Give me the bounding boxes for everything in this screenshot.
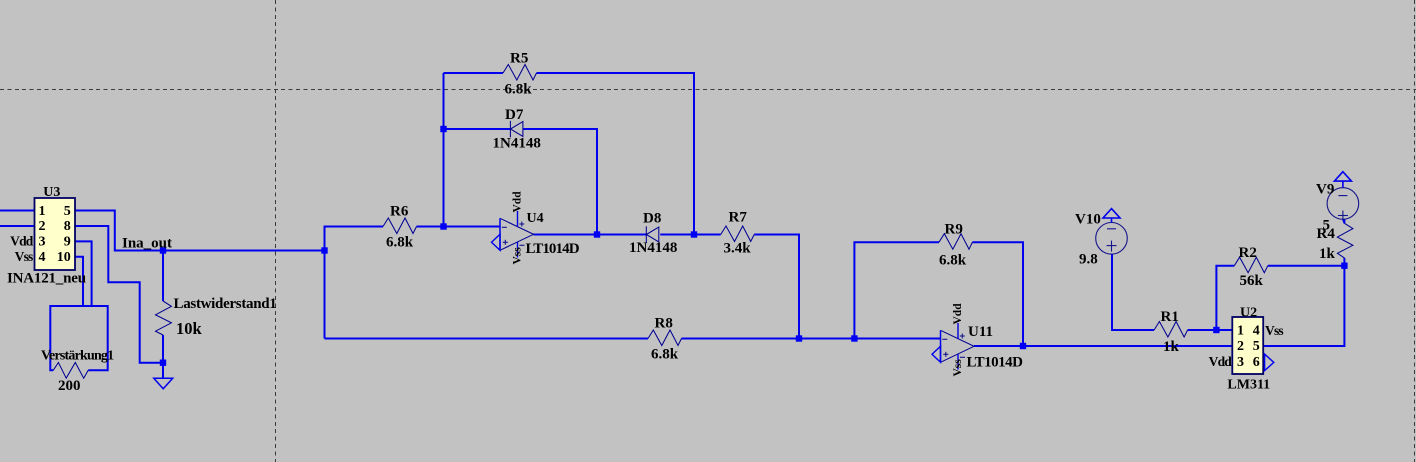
resistor R6 xyxy=(383,218,417,234)
svg-text:Vss: Vss xyxy=(15,249,33,264)
resistor R9 xyxy=(939,234,972,250)
svg-text:V9: V9 xyxy=(1316,182,1334,198)
svg-text:R4: R4 xyxy=(1317,226,1336,242)
svg-text:6.8k: 6.8k xyxy=(651,347,679,363)
svg-text:V10: V10 xyxy=(1075,212,1101,228)
svg-text:Lastwiderstand1: Lastwiderstand1 xyxy=(174,296,277,312)
voltage source V9 xyxy=(1327,172,1359,224)
op-amp U11 xyxy=(932,323,974,370)
svg-text:LM311: LM311 xyxy=(1227,378,1270,393)
svg-text:R8: R8 xyxy=(655,316,673,332)
svg-text:U3: U3 xyxy=(43,185,60,200)
svg-text:56k: 56k xyxy=(1240,273,1264,289)
svg-text:Vdd: Vdd xyxy=(511,191,523,213)
resistor R7 xyxy=(721,226,755,242)
V9 plus-minus marks xyxy=(1338,196,1348,221)
wire U4 output xyxy=(534,234,647,236)
svg-text:R2: R2 xyxy=(1239,245,1257,261)
svg-text:5: 5 xyxy=(1253,339,1260,354)
wire U11 output to U2 pin2 xyxy=(974,345,1232,347)
wire U3 pin2 left xyxy=(0,225,35,227)
svg-text:LT1014D: LT1014D xyxy=(526,241,580,257)
svg-text:6.8k: 6.8k xyxy=(386,235,414,251)
diode D7 xyxy=(510,121,523,138)
svg-text:D7: D7 xyxy=(505,107,524,123)
wire Lastwiderstand bottom xyxy=(162,335,164,378)
page border dashed vertical xyxy=(275,0,277,462)
svg-text:10: 10 xyxy=(57,250,71,265)
svg-text:2: 2 xyxy=(39,219,46,234)
junction D8 R7 / R5 xyxy=(691,231,697,237)
V10 plus-minus marks xyxy=(1107,229,1117,252)
svg-text:1N4148: 1N4148 xyxy=(493,136,541,152)
svg-text:1: 1 xyxy=(1237,323,1244,338)
IC U2 body xyxy=(1232,317,1263,374)
wire R6 to U4 minus input xyxy=(417,226,501,228)
junction Ina_out / x324 xyxy=(321,247,327,253)
svg-text:1N4148: 1N4148 xyxy=(629,240,677,256)
wire R1 to U2 pin1 xyxy=(1188,329,1233,331)
svg-text:Verstärkung1: Verstärkung1 xyxy=(41,349,114,364)
wire R9 right and down xyxy=(972,242,1023,346)
junction R4 / R2 xyxy=(1341,263,1347,269)
wire feedback vertical x443 xyxy=(443,73,445,227)
junction R9 / U11 output xyxy=(1020,343,1026,349)
wire D7 right and down xyxy=(523,129,597,235)
op-amp U11 plus-minus marks xyxy=(942,334,965,358)
svg-text:1: 1 xyxy=(39,204,46,219)
wire U3 pin9 down xyxy=(75,241,92,306)
wire U3 pin1 left xyxy=(0,210,35,212)
svg-text:Vss: Vss xyxy=(952,359,964,377)
junction Ina_out / Lastwiderstand xyxy=(160,247,166,253)
wire R2 right xyxy=(1268,265,1345,267)
svg-text:R7: R7 xyxy=(729,210,748,226)
wire D7 left xyxy=(444,128,511,130)
svg-text:R6: R6 xyxy=(390,204,409,220)
wire R7 right and down to R8 xyxy=(754,235,799,339)
svg-text:Vdd: Vdd xyxy=(10,233,34,248)
U2 pin6 marker xyxy=(1265,354,1274,371)
svg-text:10k: 10k xyxy=(176,319,203,338)
resistor R1 xyxy=(1154,322,1188,338)
wire R9 loop xyxy=(854,242,939,338)
svg-text:5: 5 xyxy=(64,204,71,219)
wire node vertical x324 xyxy=(325,227,384,339)
op-amp U4 xyxy=(492,211,534,258)
svg-text:R5: R5 xyxy=(510,51,528,67)
junction R7 / R8 xyxy=(796,335,802,341)
svg-text:2: 2 xyxy=(1237,339,1244,354)
resistor Lastwiderstand1 (vertical) xyxy=(156,301,172,335)
Verstaerkung1 body xyxy=(50,306,107,378)
svg-text:3: 3 xyxy=(1237,355,1244,370)
svg-text:3.4k: 3.4k xyxy=(724,240,752,256)
wire R5 left xyxy=(444,72,504,74)
svg-text:Vss: Vss xyxy=(511,247,523,265)
wire R8 line right to U11 xyxy=(682,338,941,340)
svg-text:Ina_out: Ina_out xyxy=(122,236,172,252)
svg-text:Vdd: Vdd xyxy=(1209,354,1233,369)
junction R1 / R2 / U2 pin1 xyxy=(1213,327,1219,333)
svg-text:D8: D8 xyxy=(643,211,661,227)
resistor R5 xyxy=(503,65,537,81)
page border dashed vertical right xyxy=(1414,0,1416,462)
ground xyxy=(154,378,173,388)
wire Lastwiderstand top xyxy=(162,251,164,302)
wire V10 down to R1 xyxy=(1112,254,1154,330)
svg-text:1k: 1k xyxy=(1163,339,1180,355)
IC U3 body xyxy=(35,198,76,270)
junction R6 feedback xyxy=(440,223,446,229)
svg-text:U11: U11 xyxy=(968,324,993,340)
svg-text:R9: R9 xyxy=(945,222,963,238)
junction ground node xyxy=(160,360,166,366)
wire D8 to R7 xyxy=(660,234,720,236)
wire U3 pin8 to ground node xyxy=(75,226,163,363)
junction U4 output / D7 xyxy=(594,231,600,237)
diode D8 xyxy=(646,226,659,243)
wire U3 pin10 down xyxy=(75,257,83,306)
svg-text:8: 8 xyxy=(64,219,71,234)
wire V9 to R4 xyxy=(1343,219,1345,223)
svg-text:Vss: Vss xyxy=(1265,323,1283,338)
svg-text:9.8: 9.8 xyxy=(1079,252,1098,268)
wire R5 right and down xyxy=(537,73,695,235)
page border dashed horizontal xyxy=(0,89,1416,91)
svg-text:3: 3 xyxy=(39,235,46,250)
resistor R4 (vertical) xyxy=(1337,223,1353,258)
junction R9 / R8 xyxy=(851,335,857,341)
op-amp U4 plus-minus marks xyxy=(502,222,525,246)
wire R4 to junction and U2 pin5 xyxy=(1263,258,1344,346)
svg-text:U2: U2 xyxy=(1240,306,1257,321)
junction D7 left xyxy=(440,126,446,132)
svg-text:6.8k: 6.8k xyxy=(939,253,967,269)
svg-text:6.8k: 6.8k xyxy=(505,82,533,98)
svg-text:Vdd: Vdd xyxy=(952,303,964,325)
resistor R8 xyxy=(648,330,682,346)
svg-text:4: 4 xyxy=(39,250,46,265)
svg-text:INA121_neu: INA121_neu xyxy=(7,271,86,287)
wire R2 branch vertical xyxy=(1216,266,1234,330)
svg-text:6: 6 xyxy=(1253,355,1260,370)
svg-text:4: 4 xyxy=(1253,323,1260,338)
svg-text:LT1014D: LT1014D xyxy=(967,355,1024,371)
svg-text:1k: 1k xyxy=(1319,246,1336,262)
voltage source V10 xyxy=(1096,209,1128,255)
wire R8 line left xyxy=(325,338,649,340)
wire U3 pin5 to Ina_out xyxy=(75,211,325,251)
svg-text:200: 200 xyxy=(58,378,81,394)
svg-text:R1: R1 xyxy=(1161,309,1179,325)
svg-text:9: 9 xyxy=(64,235,71,250)
resistor R2 xyxy=(1234,257,1268,273)
svg-text:U4: U4 xyxy=(527,211,544,226)
